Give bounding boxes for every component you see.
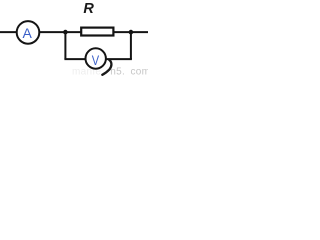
junction dot right node [129,30,134,35]
svg-text:n5.: n5. [110,67,125,77]
wire resistor to right edge [113,31,148,33]
svg-text:com: com [131,67,149,77]
wire ammeter to resistor [39,31,82,33]
wire voltmeter to bottom right [106,58,132,60]
wire left segment [0,31,18,33]
wire vertical right branch [130,32,132,59]
svg-text:V: V [92,52,100,68]
resistor R [81,28,113,36]
voltmeter V1 [86,48,106,68]
watermark swoosh stroke [102,60,111,75]
junction dot left node [63,30,68,35]
svg-text:A: A [23,25,33,41]
wire vertical left branch [64,32,66,59]
ammeter A1 [17,21,40,44]
wire bottom left to voltmeter [64,58,85,60]
svg-text:R: R [83,1,94,17]
